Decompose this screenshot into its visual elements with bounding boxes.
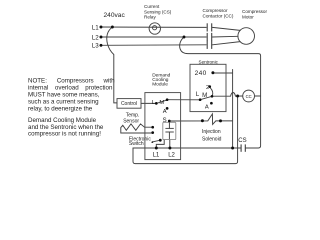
- node module S terminal dot: [168, 120, 171, 123]
- Control box: [117, 99, 141, 109]
- wire L3 line: [100, 44, 206, 47]
- svg-text:Solenoid: Solenoid: [202, 137, 222, 143]
- svg-text:Relay: Relay: [144, 15, 156, 20]
- node Sentronic L terminal dot: [199, 98, 202, 101]
- wire CC coil to right rail: [254, 95, 260, 97]
- current sensing relay CS donut symbol: [149, 23, 160, 34]
- switch arc Sentronic M to 2: [210, 87, 213, 96]
- svg-text:Module: Module: [152, 82, 168, 88]
- svg-text:A: A: [205, 105, 209, 111]
- svg-text:L: L: [196, 91, 200, 98]
- wire module internal to L2 terminal: [169, 140, 171, 148]
- node L2 terminal dot: [100, 36, 103, 39]
- svg-text:CS: CS: [238, 138, 246, 144]
- node temp sensor lower terminal dot: [151, 131, 154, 134]
- label Compressor Motor: [242, 9, 267, 19]
- svg-text:compressor is not running!: compressor is not running!: [28, 131, 101, 138]
- wire Control box to module terminal L: [141, 102, 155, 104]
- wire module terminal M to Sentronic terminal L: [167, 99, 199, 101]
- contactor CC pole3 contact bars: [206, 41, 208, 49]
- svg-text:L3: L3: [92, 43, 99, 50]
- node Sentronic 240 terminal dot: [211, 71, 214, 74]
- svg-text:L1: L1: [92, 24, 99, 31]
- svg-text:L2: L2: [92, 34, 99, 41]
- svg-text:M: M: [202, 92, 207, 99]
- wire module S to v1 with injection solenoid sawtooth: [169, 114, 232, 125]
- svg-text:Motor: Motor: [242, 14, 254, 19]
- svg-text:Temp.: Temp.: [126, 112, 140, 118]
- node module A terminal dot: [166, 107, 169, 110]
- junction v1 bottom rail dot: [231, 147, 234, 150]
- node L1 terminal dot: [100, 26, 103, 29]
- node module L terminal dot: [155, 102, 158, 105]
- node Sentronic M terminal dot: [211, 95, 214, 98]
- node temp sensor upper terminal dot: [151, 126, 154, 129]
- wire Sentronic 240 terminal to v1: [213, 72, 233, 74]
- capacitor-in-box component inside module: [163, 122, 176, 139]
- wire L1 tap down to Control box: [107, 27, 117, 103]
- node electronic switch pivot dot: [152, 141, 154, 143]
- svg-text:CC: CC: [246, 94, 252, 99]
- switch arm Sentronic L to M: [200, 96, 212, 99]
- wire v1 vertical drop: [232, 70, 234, 149]
- svg-text:2: 2: [206, 85, 209, 91]
- switch arm module L to M: [156, 100, 167, 104]
- electronic switch arm: [152, 140, 160, 142]
- node L3 terminal dot: [100, 44, 103, 47]
- svg-text:relay, to deenergize the: relay, to deenergize the: [28, 105, 93, 112]
- note paragraph 2: [28, 117, 104, 138]
- junction CC coil left dot: [236, 95, 239, 98]
- wire cap-box top stem: [168, 121, 170, 128]
- label Current Sensing (CS) Relay: [144, 4, 172, 20]
- wire contactor pole2 to motor: [212, 35, 238, 38]
- contactor CC pole1 contact bars: [206, 23, 208, 31]
- CS relay contact bars: [240, 144, 242, 151]
- svg-text:Switch: Switch: [129, 141, 144, 147]
- svg-text:Injection: Injection: [202, 129, 221, 135]
- svg-text:Control: Control: [121, 101, 137, 107]
- compressor motor circle: [238, 28, 255, 45]
- svg-text:240: 240: [195, 70, 207, 77]
- svg-text:Sentronic: Sentronic: [199, 59, 219, 64]
- contactor coil CC circle: [243, 90, 255, 102]
- svg-text:Contactor (CC): Contactor (CC): [203, 13, 234, 18]
- node module L1 terminal dot: [155, 147, 158, 150]
- junction solenoid wire right dot: [219, 119, 222, 122]
- svg-text:Sensor: Sensor: [123, 119, 139, 125]
- wire L1 line: [100, 26, 206, 28]
- node module M terminal dot: [166, 98, 169, 101]
- label Demand Cooling Module: [152, 72, 170, 87]
- svg-text:S: S: [163, 118, 167, 124]
- svg-text:Compressor: Compressor: [203, 8, 228, 13]
- node Sentronic 2 terminal dot: [208, 85, 211, 88]
- junction solenoid wire left dot: [201, 119, 204, 122]
- Sentronic box: [190, 64, 226, 111]
- node module L2 terminal dot: [168, 147, 171, 150]
- wire v2 from CC junction down and under-rail to bottom left: [133, 96, 238, 164]
- junction L2 tap dot: [183, 36, 186, 39]
- svg-text:Current: Current: [144, 4, 160, 9]
- wire Sentronic M to CC coil with hop over v1: [212, 93, 243, 97]
- node electronic switch arm tip dot: [159, 139, 162, 142]
- wire module internal cap-box to L1 terminal: [156, 140, 164, 148]
- wire L2 line: [100, 36, 206, 38]
- wire L2 tap down to 240v rail and right-side rail to CS contact: [180, 37, 261, 148]
- wire contactor pole1 to motor: [212, 27, 240, 30]
- svg-text:M: M: [159, 100, 164, 106]
- svg-text:A: A: [163, 109, 167, 115]
- wire contactor pole3 to motor: [212, 42, 240, 45]
- svg-text:L1: L1: [153, 152, 160, 158]
- thermistor temp sensor loop: [121, 124, 153, 133]
- wire cap-box bottom stem: [168, 132, 170, 140]
- svg-text:240vac: 240vac: [104, 12, 126, 19]
- junction L1 tap dot: [111, 26, 114, 29]
- Demand Cooling Module box: [145, 93, 181, 160]
- node Sentronic A terminal dot: [210, 102, 213, 105]
- svg-text:L2: L2: [168, 152, 175, 158]
- note paragraph 1: [28, 78, 115, 113]
- contactor CC pole2 contact bars: [206, 33, 208, 41]
- label Compressor Contactor (CC): [203, 8, 234, 18]
- wire bottom rail module L1/L2 to CS contact: [133, 147, 241, 149]
